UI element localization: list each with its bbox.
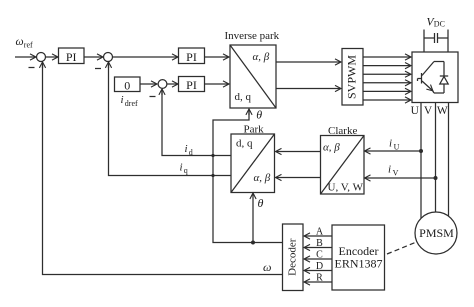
svg-text:d, q: d, q xyxy=(235,91,252,103)
svg-text:U, V, W: U, V, W xyxy=(328,182,364,194)
block encoder U7 xyxy=(332,225,385,290)
svg-text:V: V xyxy=(424,105,433,117)
wire S3 to PI3 xyxy=(167,83,178,85)
wire SVPWM to inverter gate 6 xyxy=(363,99,411,101)
svg-text:dref: dref xyxy=(125,99,138,108)
summing junction S2 xyxy=(104,53,113,62)
node i_V label xyxy=(388,164,399,178)
wire PI3 to inverse park input 2 xyxy=(205,83,229,85)
svg-text:i: i xyxy=(389,138,392,150)
svg-text:θ: θ xyxy=(256,108,262,122)
minus sign at S3 xyxy=(150,96,156,98)
svg-text:i: i xyxy=(388,164,391,176)
wire omega_ref input xyxy=(15,56,36,58)
junction dot on phase U xyxy=(419,149,423,153)
wire inverse park to SVPWM line 1 xyxy=(276,61,341,63)
wire i_q feedback Park to S2 xyxy=(109,62,232,175)
wire theta branch to Park xyxy=(252,194,254,243)
wire inverse park to SVPWM line 2 xyxy=(276,88,341,90)
node i_d label xyxy=(185,143,193,157)
svg-text:U: U xyxy=(411,105,420,117)
svg-text:U: U xyxy=(394,142,400,151)
wire S1 to PI1 xyxy=(46,56,58,58)
summing junction S1 xyxy=(37,53,46,62)
minus sign at S2 xyxy=(95,68,101,70)
wire Clarke to Park alpha xyxy=(276,151,321,153)
wire encoder channel B xyxy=(305,247,333,249)
wire Clarke to Park beta xyxy=(276,177,321,179)
node i_dref label xyxy=(121,94,139,108)
svg-text:PI: PI xyxy=(186,78,197,92)
block zero reference xyxy=(115,77,141,92)
svg-text:W: W xyxy=(437,105,448,117)
svg-text:Clarke: Clarke xyxy=(328,125,357,137)
wire SVPWM to inverter gate 2 xyxy=(363,65,411,67)
minus sign at S1 xyxy=(29,67,35,69)
wire SVPWM to inverter gate 3 xyxy=(363,73,411,75)
block PI3 xyxy=(179,77,205,93)
wire encoder channel R xyxy=(305,281,333,283)
wire phase V inverter to motor xyxy=(435,103,437,213)
node i_U label xyxy=(389,138,400,152)
svg-text:q: q xyxy=(184,166,188,175)
block PI1 xyxy=(59,48,85,64)
node i_q label xyxy=(180,162,188,176)
svg-text:i: i xyxy=(180,162,183,174)
wire phase W inverter to motor xyxy=(448,103,450,217)
node V_DC label xyxy=(427,16,445,28)
block inverse park transform U1 xyxy=(225,30,280,108)
junction dot on phase V xyxy=(434,176,438,180)
summing junction S3 xyxy=(158,80,167,89)
svg-text:R: R xyxy=(316,273,323,284)
block decoder U6 xyxy=(283,224,304,291)
wire PI1 to S2 xyxy=(84,56,103,58)
wire omega feedback decoder to S1 xyxy=(43,62,283,274)
wire SVPWM to inverter gate 1 xyxy=(363,56,411,58)
svg-text:α, β: α, β xyxy=(253,51,270,63)
diode D1 inside inverter xyxy=(440,62,448,94)
wire encoder channel C xyxy=(305,258,333,260)
svg-text:PI: PI xyxy=(66,50,77,64)
svg-text:Decoder: Decoder xyxy=(286,238,298,276)
wire encoder channel A xyxy=(305,235,333,237)
wire i_V tap to Clarke xyxy=(365,177,436,179)
block inverter U3 xyxy=(412,52,458,103)
wire dashed shaft coupling encoder to motor xyxy=(387,242,417,254)
wire theta net decoder to inverse park xyxy=(213,110,283,243)
svg-text:A: A xyxy=(316,227,324,238)
svg-text:Park: Park xyxy=(244,123,265,135)
wire i_U tap to Clarke xyxy=(365,150,421,152)
svg-text:α, β: α, β xyxy=(323,142,340,154)
svg-text:0: 0 xyxy=(124,78,130,92)
transistor Q1 IGBT inside inverter xyxy=(418,62,445,94)
wire SVPWM to inverter gate 5 xyxy=(363,90,411,92)
svg-text:PI: PI xyxy=(186,50,197,64)
wire i_d feedback Park to S3 xyxy=(162,89,231,155)
motor PMSM M1 xyxy=(415,212,457,254)
svg-text:d, q: d, q xyxy=(236,138,253,150)
wire encoder channel D xyxy=(305,270,333,272)
wire theta arrow into inverse park xyxy=(248,109,250,115)
node omega_ref input label xyxy=(16,36,34,49)
block Clarke transform U4 xyxy=(321,125,365,194)
svg-text:ω: ω xyxy=(263,260,271,274)
wire SVPWM to inverter gate 4 xyxy=(363,82,411,84)
svg-text:ERN1387: ERN1387 xyxy=(335,257,383,271)
capacitor C1 DC link xyxy=(424,30,448,53)
svg-text:i: i xyxy=(185,143,188,155)
junction dot on theta net xyxy=(251,241,255,245)
crossover bump theta over i_q xyxy=(211,174,214,177)
svg-text:ω: ω xyxy=(16,36,24,48)
svg-text:D: D xyxy=(316,261,323,272)
svg-text:SVPWM: SVPWM xyxy=(344,55,358,99)
svg-text:i: i xyxy=(121,94,124,106)
wire phase U inverter to motor xyxy=(420,103,422,219)
wire zero block to S3 xyxy=(140,83,157,85)
svg-text:V: V xyxy=(393,168,399,177)
svg-text:ref: ref xyxy=(24,40,33,49)
svg-text:C: C xyxy=(316,250,323,261)
block SVPWM U2 xyxy=(342,49,363,106)
wire PI2 to inverse park input 1 xyxy=(205,56,229,58)
svg-text:PMSM: PMSM xyxy=(419,226,454,240)
svg-text:d: d xyxy=(189,148,193,157)
svg-text:α, β: α, β xyxy=(254,172,271,184)
crossover bump theta over i_d xyxy=(211,154,214,157)
wire S2 to PI2 xyxy=(113,56,178,58)
block Park transform U5 xyxy=(231,123,275,192)
svg-text:Inverse park: Inverse park xyxy=(225,30,280,42)
svg-text:DC: DC xyxy=(434,20,445,29)
svg-text:θ: θ xyxy=(258,196,264,210)
block PI2 xyxy=(179,48,205,64)
svg-text:B: B xyxy=(316,238,323,249)
